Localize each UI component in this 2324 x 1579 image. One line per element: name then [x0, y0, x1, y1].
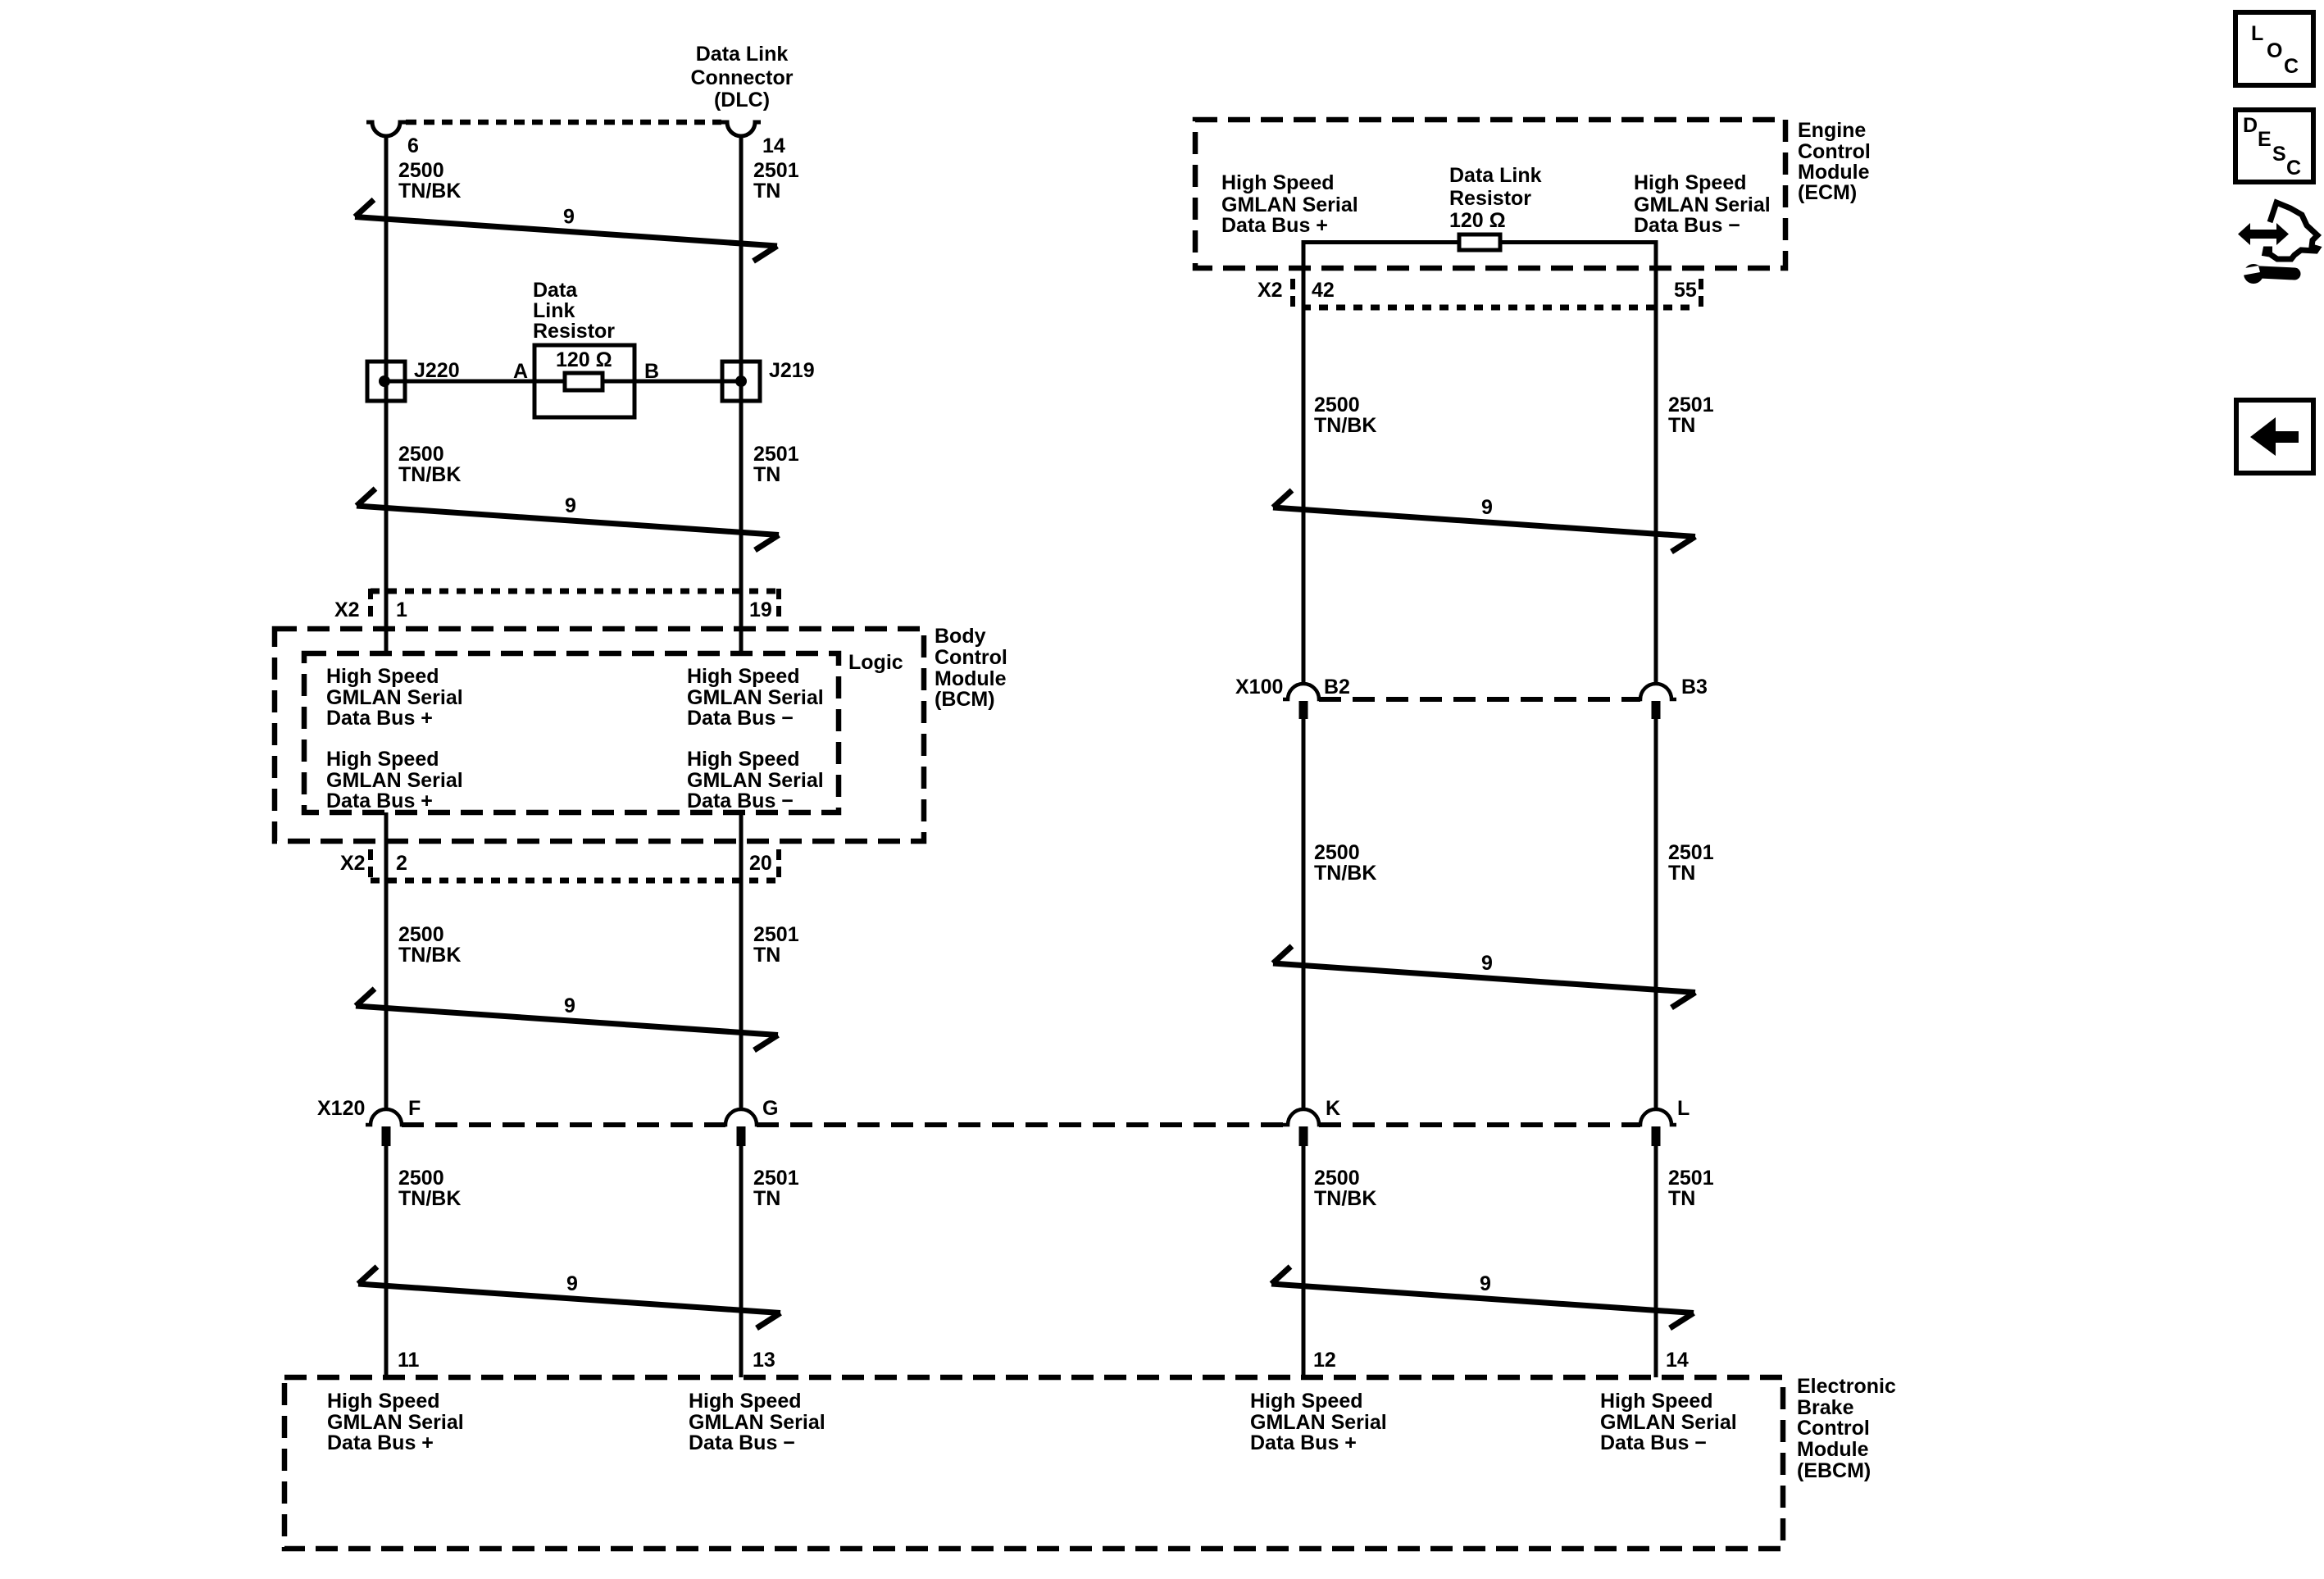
- connector X2 (ECM) left bracket: [1290, 279, 1295, 310]
- svg-text:TN/BK: TN/BK: [398, 944, 461, 967]
- connector X2 row-2 dotted line: [371, 878, 779, 884]
- connector X2 row-1 right bracket: [776, 589, 781, 621]
- svg-text:(EBCM): (EBCM): [1797, 1459, 1871, 1482]
- wire 2500 TN/BK DLC-to-splice segment: [384, 135, 389, 653]
- wire crossing symbol C3 (9 wires): [356, 989, 778, 1050]
- wire ECM internal bus with terminating resistor: [1303, 243, 1656, 685]
- in-line connector terminal X120-G: [721, 1109, 762, 1125]
- svg-text:High Speed: High Speed: [689, 1390, 802, 1413]
- connector terminal DLC pin 6 (female half-circle, DLC): [366, 122, 406, 136]
- icon DESC box: [2235, 110, 2313, 182]
- DLC connector dashed line: [406, 120, 721, 125]
- svg-text:G: G: [762, 1097, 778, 1120]
- svg-text:9: 9: [566, 1272, 578, 1295]
- svg-text:Data Bus +: Data Bus +: [1221, 214, 1328, 237]
- svg-text:TN: TN: [753, 180, 780, 202]
- svg-text:120 Ω: 120 Ω: [556, 348, 612, 371]
- svg-text:55: 55: [1674, 279, 1697, 302]
- resistor R outer box: [534, 345, 634, 417]
- svg-text:Data Bus −: Data Bus −: [687, 789, 794, 812]
- module box Body Control Module (BCM): [275, 629, 924, 841]
- svg-text:X2: X2: [340, 852, 366, 875]
- svg-text:9: 9: [565, 494, 576, 517]
- svg-text:J220: J220: [414, 359, 460, 382]
- resistor R element 120 ohm: [565, 373, 603, 390]
- svg-text:9: 9: [564, 994, 575, 1017]
- svg-text:2501: 2501: [1668, 394, 1714, 416]
- in-line connector terminal X120-F: [366, 1109, 407, 1125]
- svg-text:2501: 2501: [1668, 841, 1714, 864]
- svg-text:2501: 2501: [753, 923, 799, 946]
- splice J220 box: [367, 362, 405, 401]
- svg-text:J219: J219: [769, 359, 815, 382]
- svg-text:TN/BK: TN/BK: [1314, 862, 1376, 885]
- BCM logic box: [304, 653, 839, 812]
- svg-text:Logic: Logic: [848, 651, 903, 674]
- svg-text:D: D: [2243, 114, 2258, 137]
- svg-text:L: L: [1677, 1097, 1690, 1120]
- svg-text:GMLAN Serial: GMLAN Serial: [326, 686, 463, 709]
- wire 2501 TN X100-to-X120 segment: [1654, 719, 1658, 1109]
- svg-text:TN: TN: [753, 1187, 780, 1210]
- wire 2501 TN BCM-to-X120 segment: [739, 812, 744, 1109]
- svg-text:Data Bus +: Data Bus +: [326, 707, 433, 730]
- svg-text:GMLAN Serial: GMLAN Serial: [687, 769, 824, 792]
- svg-text:42: 42: [1312, 279, 1335, 302]
- svg-text:2500: 2500: [398, 443, 444, 466]
- svg-text:2500: 2500: [1314, 394, 1360, 416]
- wire crossing symbol C1 (9 wires): [355, 200, 777, 262]
- svg-text:120 Ω: 120 Ω: [1449, 209, 1506, 232]
- in-line connector terminal X100-B3: [1635, 684, 1676, 699]
- wire crossing symbol C2 (9 wires): [357, 489, 779, 550]
- svg-text:Data Bus +: Data Bus +: [327, 1431, 434, 1454]
- svg-text:Data: Data: [533, 279, 578, 302]
- svg-text:High Speed: High Speed: [1634, 171, 1747, 194]
- svg-text:GMLAN Serial: GMLAN Serial: [326, 769, 463, 792]
- svg-text:GMLAN Serial: GMLAN Serial: [327, 1411, 464, 1434]
- resistor element 120 ohm (ECM): [1459, 234, 1500, 250]
- connector X2 (ECM) dotted line: [1302, 305, 1694, 311]
- svg-text:Engine: Engine: [1798, 119, 1866, 142]
- svg-text:High Speed: High Speed: [1250, 1390, 1363, 1413]
- splice J219 box: [722, 362, 760, 401]
- splice J219 junction dot: [735, 375, 747, 387]
- connector X2 row-2 left bracket: [368, 849, 373, 884]
- module box Electronic Brake Control Module (EBCM): [284, 1377, 1783, 1549]
- wire 2500 TN/BK X120-to-EBCM right segment: [1302, 1146, 1306, 1377]
- svg-text:GMLAN Serial: GMLAN Serial: [1250, 1411, 1387, 1434]
- svg-text:GMLAN Serial: GMLAN Serial: [1600, 1411, 1737, 1434]
- connector X2 row-1 left bracket: [368, 589, 373, 621]
- svg-text:11: 11: [398, 1349, 420, 1372]
- svg-text:GMLAN Serial: GMLAN Serial: [1634, 193, 1771, 216]
- svg-text:Resistor: Resistor: [1449, 187, 1531, 210]
- svg-text:Data Bus +: Data Bus +: [1250, 1431, 1357, 1454]
- svg-text:S: S: [2272, 143, 2286, 166]
- svg-text:Connector: Connector: [691, 66, 794, 89]
- svg-text:High Speed: High Speed: [326, 665, 439, 688]
- in-line connector terminal X120-K: [1283, 1109, 1324, 1125]
- svg-text:TN/BK: TN/BK: [1314, 1187, 1376, 1210]
- svg-text:2501: 2501: [753, 1167, 799, 1190]
- svg-text:Data Bus −: Data Bus −: [687, 707, 794, 730]
- svg-text:Brake: Brake: [1797, 1396, 1854, 1419]
- icon connector-repair (double arrow, outline, wrench): [2238, 202, 2317, 284]
- svg-text:(DLC): (DLC): [714, 89, 770, 111]
- svg-text:20: 20: [749, 852, 772, 875]
- svg-text:Data Link: Data Link: [696, 43, 789, 66]
- svg-text:Data Link: Data Link: [1449, 164, 1542, 187]
- svg-text:TN/BK: TN/BK: [1314, 414, 1376, 437]
- wire crossing symbol C7 (9 wires): [1271, 1267, 1694, 1328]
- svg-text:14: 14: [762, 134, 785, 157]
- svg-text:TN/BK: TN/BK: [398, 180, 461, 202]
- svg-text:Data Bus −: Data Bus −: [1600, 1431, 1707, 1454]
- svg-text:B: B: [644, 360, 659, 383]
- svg-text:TN/BK: TN/BK: [398, 463, 461, 486]
- svg-text:GMLAN Serial: GMLAN Serial: [689, 1411, 825, 1434]
- wire crossing symbol C5 (9 wires): [1273, 490, 1695, 552]
- connector terminal DLC pin 14 (female half-circle, DLC): [721, 122, 761, 136]
- icon LOC box: [2235, 12, 2313, 85]
- svg-text:A: A: [513, 360, 528, 383]
- svg-text:X2: X2: [1258, 279, 1283, 302]
- svg-text:X2: X2: [334, 598, 360, 621]
- svg-text:B3: B3: [1681, 676, 1708, 698]
- connector X100 dashed line: [1319, 697, 1640, 702]
- wire crossing symbol C6 (9 wires): [1273, 946, 1695, 1008]
- wire 2501 TN X120-to-EBCM segment: [739, 1146, 744, 1377]
- svg-text:TN: TN: [1668, 414, 1695, 437]
- splice J220 junction dot: [379, 375, 390, 387]
- svg-text:K: K: [1326, 1097, 1340, 1120]
- svg-text:Resistor: Resistor: [533, 320, 615, 343]
- svg-text:TN: TN: [1668, 862, 1695, 885]
- icon back-arrow box: [2236, 400, 2313, 473]
- svg-text:GMLAN Serial: GMLAN Serial: [687, 686, 824, 709]
- svg-text:High Speed: High Speed: [687, 665, 800, 688]
- svg-text:Module: Module: [1798, 161, 1870, 184]
- svg-text:12: 12: [1313, 1349, 1336, 1372]
- svg-text:Data Bus +: Data Bus +: [326, 789, 433, 812]
- svg-text:TN/BK: TN/BK: [398, 1187, 461, 1210]
- svg-text:14: 14: [1666, 1349, 1689, 1372]
- wire 2501 TN DLC-to-splice segment: [739, 135, 744, 653]
- wire 2500 TN/BK X120-to-EBCM segment: [384, 1146, 389, 1377]
- svg-text:(BCM): (BCM): [935, 688, 995, 711]
- svg-text:X120: X120: [317, 1097, 365, 1120]
- module box Engine Control Module (ECM): [1195, 120, 1785, 268]
- svg-text:High Speed: High Speed: [1600, 1390, 1713, 1413]
- svg-text:2500: 2500: [1314, 1167, 1360, 1190]
- connector X2 row-1 dotted line: [371, 589, 779, 594]
- wire splice-to-splice (J220 to J219): [386, 380, 741, 384]
- svg-text:2501: 2501: [1668, 1167, 1714, 1190]
- svg-text:9: 9: [563, 206, 575, 229]
- svg-text:13: 13: [753, 1349, 775, 1372]
- svg-text:O: O: [2267, 39, 2282, 62]
- svg-text:Body: Body: [935, 625, 986, 648]
- svg-text:C: C: [2284, 55, 2299, 78]
- svg-text:Link: Link: [533, 299, 575, 322]
- svg-text:E: E: [2258, 128, 2272, 151]
- connector X120 dashed line: [402, 1122, 1640, 1127]
- svg-text:9: 9: [1480, 1272, 1491, 1295]
- svg-text:Control: Control: [1798, 140, 1871, 163]
- svg-text:2500: 2500: [1314, 841, 1360, 864]
- wire crossing symbol C4 (9 wires): [358, 1267, 780, 1328]
- svg-text:9: 9: [1481, 952, 1493, 975]
- svg-text:Control: Control: [1797, 1417, 1870, 1440]
- svg-text:X100: X100: [1235, 676, 1283, 698]
- svg-text:High Speed: High Speed: [687, 748, 800, 771]
- svg-text:L: L: [2251, 22, 2263, 45]
- svg-text:TN: TN: [753, 463, 780, 486]
- svg-text:1: 1: [396, 598, 407, 621]
- svg-text:TN: TN: [1668, 1187, 1695, 1210]
- svg-text:2501: 2501: [753, 159, 799, 182]
- connector X2 (ECM) right bracket: [1699, 279, 1703, 310]
- svg-text:Data Bus −: Data Bus −: [689, 1431, 795, 1454]
- svg-text:GMLAN Serial: GMLAN Serial: [1221, 193, 1358, 216]
- svg-text:Control: Control: [935, 646, 1007, 669]
- connector X2 row-2 right bracket: [776, 849, 781, 884]
- wire 2500 TN/BK BCM-to-X120 segment: [384, 812, 389, 1109]
- svg-text:2500: 2500: [398, 1167, 444, 1190]
- in-line connector terminal X120-L: [1635, 1109, 1676, 1125]
- svg-text:Electronic: Electronic: [1797, 1375, 1896, 1398]
- svg-text:19: 19: [749, 598, 772, 621]
- svg-text:2500: 2500: [398, 923, 444, 946]
- svg-text:2: 2: [396, 852, 407, 875]
- svg-text:9: 9: [1481, 496, 1493, 519]
- svg-text:Module: Module: [935, 667, 1007, 690]
- svg-text:2501: 2501: [753, 443, 799, 466]
- svg-text:(ECM): (ECM): [1798, 181, 1857, 204]
- svg-text:High Speed: High Speed: [326, 748, 439, 771]
- svg-text:High Speed: High Speed: [327, 1390, 440, 1413]
- wire 2501 TN X120-to-EBCM right segment: [1654, 1146, 1658, 1377]
- svg-text:2500: 2500: [398, 159, 444, 182]
- label Data Link Connector (DLC) title: [691, 43, 794, 111]
- in-line connector terminal X100-B2: [1283, 684, 1324, 699]
- svg-text:High Speed: High Speed: [1221, 171, 1335, 194]
- svg-text:TN: TN: [753, 944, 780, 967]
- svg-text:F: F: [408, 1097, 421, 1120]
- svg-text:Module: Module: [1797, 1438, 1869, 1461]
- svg-text:Data Bus −: Data Bus −: [1634, 214, 1740, 237]
- wire 2500 TN/BK X100-to-X120 segment: [1302, 719, 1306, 1109]
- svg-text:6: 6: [407, 134, 419, 157]
- svg-text:C: C: [2286, 157, 2301, 180]
- svg-text:B2: B2: [1324, 676, 1350, 698]
